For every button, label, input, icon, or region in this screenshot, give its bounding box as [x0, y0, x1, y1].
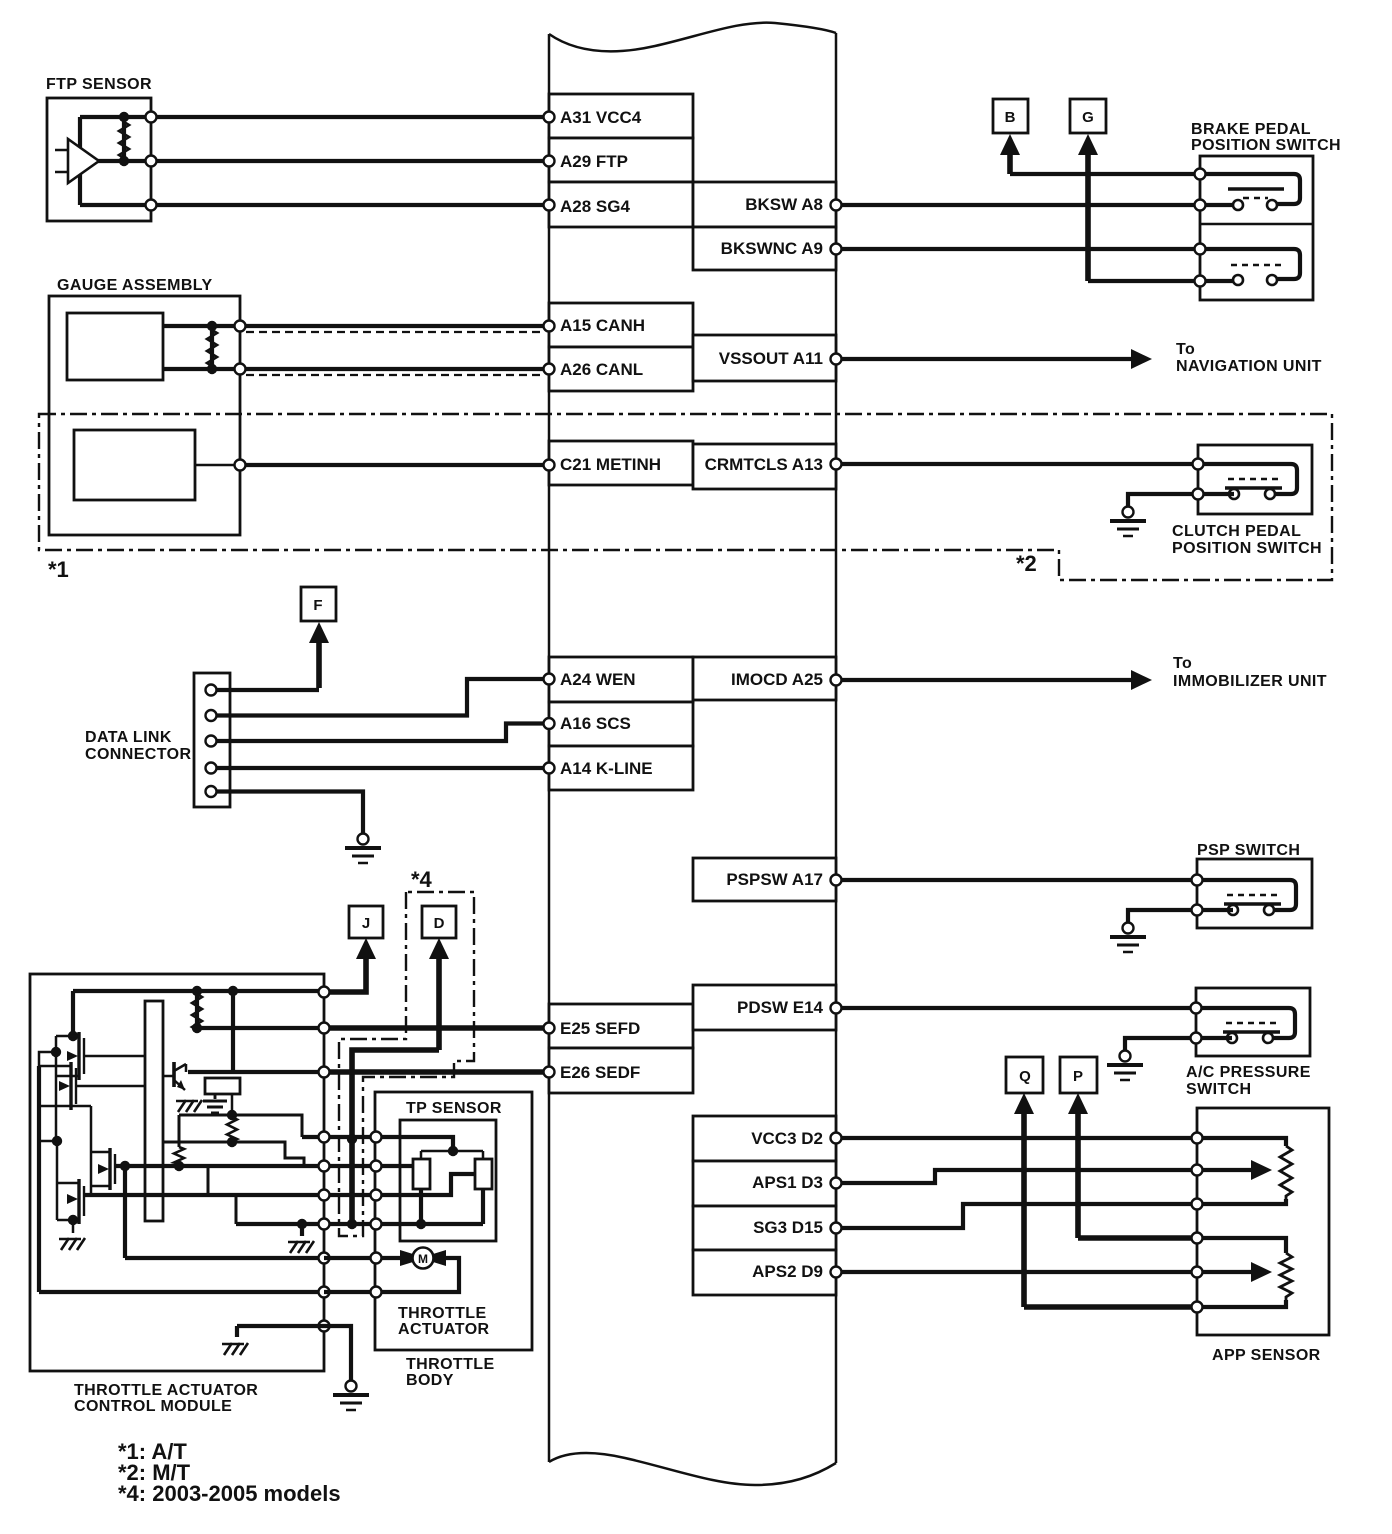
svg-text:IMMOBILIZER UNIT: IMMOBILIZER UNIT: [1173, 673, 1327, 690]
svg-text:TP SENSOR: TP SENSOR: [406, 1100, 502, 1117]
svg-text:APS2 D9: APS2 D9: [752, 1262, 823, 1281]
svg-text:THROTTLE ACTUATOR: THROTTLE ACTUATOR: [74, 1382, 258, 1399]
svg-text:CONNECTOR: CONNECTOR: [85, 746, 191, 763]
svg-text:THROTTLE: THROTTLE: [398, 1305, 487, 1322]
svg-text:E26 SEDF: E26 SEDF: [560, 1063, 640, 1082]
svg-text:*4: 2003-2005 models: *4: 2003-2005 models: [118, 1481, 341, 1506]
svg-text:SWITCH: SWITCH: [1186, 1081, 1252, 1098]
svg-text:G: G: [1082, 109, 1094, 126]
svg-text:IMOCD A25: IMOCD A25: [731, 670, 823, 689]
svg-text:*4: *4: [411, 867, 433, 892]
svg-text:CONTROL MODULE: CONTROL MODULE: [74, 1398, 232, 1415]
svg-text:VSSOUT A11: VSSOUT A11: [719, 349, 823, 368]
svg-text:VCC3 D2: VCC3 D2: [751, 1129, 823, 1148]
svg-text:A14 K-LINE: A14 K-LINE: [560, 759, 653, 778]
svg-text:*1: *1: [48, 557, 69, 582]
svg-text:A28 SG4: A28 SG4: [560, 197, 630, 216]
svg-text:A15 CANH: A15 CANH: [560, 316, 645, 335]
svg-text:D: D: [434, 915, 445, 932]
svg-text:APP SENSOR: APP SENSOR: [1212, 1347, 1321, 1364]
svg-text:SG3 D15: SG3 D15: [753, 1218, 823, 1237]
svg-text:F: F: [313, 597, 322, 614]
svg-text:Q: Q: [1019, 1068, 1031, 1085]
svg-text:BODY: BODY: [406, 1372, 454, 1389]
svg-text:BRAKE PEDAL: BRAKE PEDAL: [1191, 121, 1311, 138]
svg-text:M: M: [418, 1252, 428, 1266]
svg-text:A16 SCS: A16 SCS: [560, 714, 631, 733]
svg-text:THROTTLE: THROTTLE: [406, 1356, 495, 1373]
svg-text:*2: *2: [1016, 551, 1037, 576]
svg-text:DATA LINK: DATA LINK: [85, 729, 172, 746]
svg-text:PDSW E14: PDSW E14: [737, 998, 824, 1017]
svg-text:C21 METINH: C21 METINH: [560, 455, 661, 474]
svg-text:POSITION SWITCH: POSITION SWITCH: [1172, 540, 1322, 557]
svg-text:PSP SWITCH: PSP SWITCH: [1197, 842, 1300, 859]
svg-text:E25 SEFD: E25 SEFD: [560, 1019, 640, 1038]
svg-text:A/C PRESSURE: A/C PRESSURE: [1186, 1064, 1311, 1081]
svg-text:POSITION SWITCH: POSITION SWITCH: [1191, 137, 1341, 154]
svg-text:PSPSW A17: PSPSW A17: [726, 870, 823, 889]
svg-text:A31 VCC4: A31 VCC4: [560, 108, 642, 127]
svg-text:APS1 D3: APS1 D3: [752, 1173, 823, 1192]
svg-text:NAVIGATION UNIT: NAVIGATION UNIT: [1176, 358, 1322, 375]
svg-text:FTP SENSOR: FTP SENSOR: [46, 76, 152, 93]
svg-text:J: J: [362, 915, 370, 932]
svg-text:B: B: [1005, 109, 1016, 126]
svg-text:BKSW A8: BKSW A8: [745, 195, 823, 214]
svg-text:CLUTCH PEDAL: CLUTCH PEDAL: [1172, 523, 1301, 540]
svg-text:ACTUATOR: ACTUATOR: [398, 1321, 490, 1338]
svg-text:To: To: [1173, 655, 1192, 672]
svg-text:GAUGE ASSEMBLY: GAUGE ASSEMBLY: [57, 277, 213, 294]
svg-text:BKSWNC A9: BKSWNC A9: [721, 239, 823, 258]
svg-text:P: P: [1073, 1068, 1083, 1085]
svg-text:A29 FTP: A29 FTP: [560, 152, 628, 171]
svg-text:To: To: [1176, 341, 1195, 358]
svg-text:A24 WEN: A24 WEN: [560, 670, 636, 689]
svg-text:CRMTCLS A13: CRMTCLS A13: [705, 455, 823, 474]
svg-text:A26 CANL: A26 CANL: [560, 360, 643, 379]
